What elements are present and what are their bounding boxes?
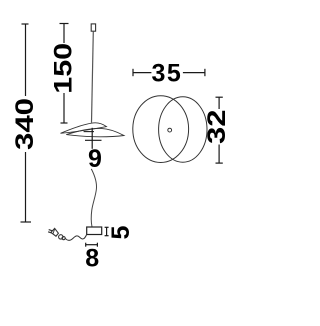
driver box — [87, 227, 102, 235]
dimension 150 line — [60, 24, 69, 124]
dimension 8 line — [86, 243, 98, 247]
ceiling mount canopy — [91, 24, 95, 31]
svg-text:5: 5 — [107, 226, 135, 240]
shade hub line — [84, 131, 94, 133]
svg-text:150: 150 — [49, 43, 77, 94]
lamp shade upper disc — [61, 123, 107, 134]
top view outer disc — [133, 96, 189, 163]
dimension 32 line — [216, 97, 223, 163]
svg-text:8: 8 — [85, 244, 99, 272]
dimension 150 label — [49, 43, 77, 94]
dimension 32 label — [203, 110, 231, 144]
dimension 9 line — [85, 128, 102, 149]
plug body — [51, 228, 59, 236]
cord to plug — [65, 234, 87, 240]
svg-text:9: 9 — [88, 145, 102, 173]
power cord curve — [91, 169, 96, 227]
dimension 340 label — [10, 98, 38, 150]
dimension 35 line — [133, 69, 205, 76]
dimension 340 line — [21, 24, 32, 222]
dimension 5 label — [107, 226, 135, 240]
suspension cord — [92, 31, 94, 123]
top view inner disc — [159, 97, 207, 162]
center hole — [168, 128, 172, 132]
cord loop — [59, 235, 63, 239]
svg-text:32: 32 — [203, 110, 231, 144]
svg-text:340: 340 — [10, 98, 38, 150]
plug prongs — [49, 230, 53, 231]
lamp shade lower disc — [66, 128, 124, 136]
svg-text:35: 35 — [151, 60, 182, 88]
dimension 5 bracket — [105, 227, 109, 235]
plug inner edge — [53, 229, 55, 234]
